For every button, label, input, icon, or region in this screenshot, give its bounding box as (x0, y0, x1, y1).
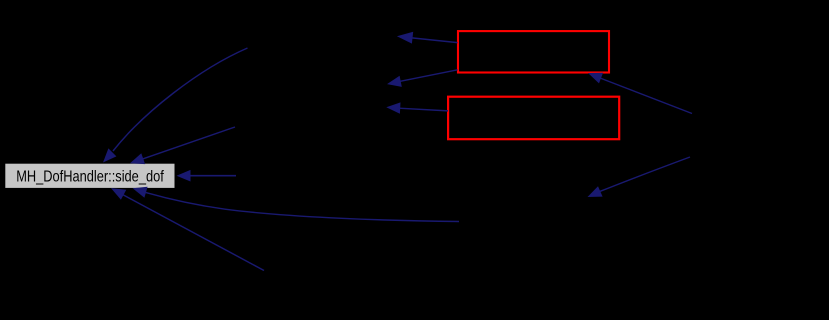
edge E7: line from red node 1 to hidden node at left (400, 70, 458, 82)
arrowhead of E7 (387, 76, 402, 87)
edge E1: curve from hidden node (248,48) to grey box top (113, 48, 248, 151)
edge E9: line from far-right hidden node to red node 1 bottom (600, 78, 692, 114)
arrowhead of E9 (588, 73, 603, 84)
edge E6: line from red node 1 to hidden node at left (410, 38, 458, 43)
arrowhead of E6 (397, 32, 413, 44)
edge E4: long flat curve from hidden node (459,221.5) to grey box bottom (146, 192, 460, 221)
arrowhead of E8 (386, 102, 400, 113)
arrowhead of E3 (177, 170, 191, 182)
red node 1 (top truncated node) (458, 31, 609, 72)
arrowhead of E2 (130, 153, 145, 164)
arrowhead of E5 (111, 188, 126, 200)
arrowhead of E10 (588, 186, 603, 197)
node MH_DofHandler::side_dof (grey box) (5, 164, 174, 188)
edge E5: line from hidden node (264,270.5) to grey box bottom (123, 195, 265, 271)
arrowhead of E1 (103, 148, 116, 162)
edge E10: line from far-right hidden node to hidden node below (600, 157, 691, 192)
edge E2: line from hidden node (235,127) to grey box top (142, 127, 235, 159)
red node 2 (bottom truncated node) (448, 97, 619, 140)
svg-text:MH_DofHandler::side_dof: MH_DofHandler::side_dof (16, 169, 164, 186)
edge E8: line from red node 2 to hidden node at left (399, 108, 448, 111)
edge E3: horizontal line into grey box right edge (189, 175, 236, 177)
arrowhead of E4 (133, 187, 148, 198)
